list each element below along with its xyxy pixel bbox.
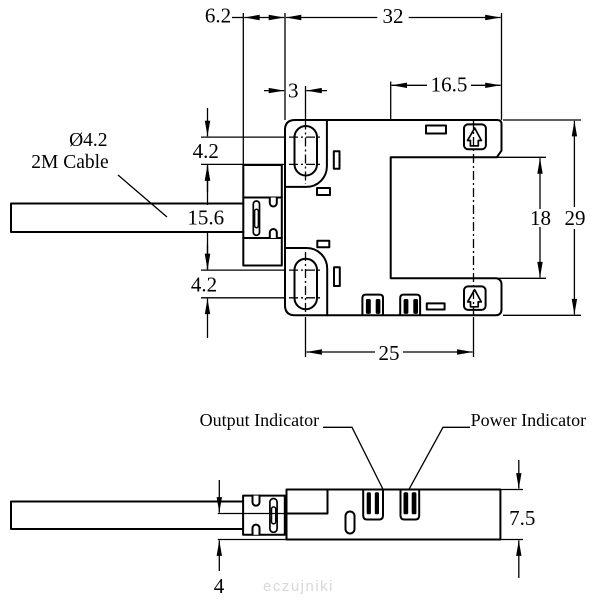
- mounting slot obround bottom: [295, 259, 318, 310]
- extension lines left dims: [201, 136, 285, 138]
- extension 7.5 top: [500, 489, 523, 491]
- svg-text:eczujniki: eczujniki: [263, 578, 334, 595]
- indicator window box top: [464, 124, 486, 149]
- cable boot side view: [243, 496, 285, 535]
- dim 18 line and arrows: [539, 158, 541, 209]
- extension line recess left: [390, 82, 392, 121]
- svg-text:4: 4: [214, 574, 225, 598]
- boot slot inner top view: [255, 209, 259, 227]
- svg-text:29: 29: [565, 206, 586, 230]
- fiber lock grille 1 top view: [362, 295, 383, 315]
- centerline indicator boxes vertical: [473, 120, 475, 315]
- extension line body right top: [501, 13, 503, 120]
- boot slot outer side view: [270, 499, 277, 533]
- svg-text:Ø4.2: Ø4.2: [69, 130, 107, 151]
- svg-text:6.2: 6.2: [205, 4, 231, 28]
- svg-text:3: 3: [288, 79, 299, 103]
- leader line cable label: [118, 175, 167, 217]
- dim 29 line and arrows: [573, 121, 575, 207]
- boot notch bottom (top view): [270, 229, 277, 238]
- extension line 25 left: [305, 317, 307, 357]
- dim 32 line and arrows: [286, 17, 378, 19]
- centerline obround2 lower horizontal: [289, 297, 322, 299]
- centerline obround2 upper horizontal: [289, 269, 322, 271]
- centerlines dash-dot: [289, 120, 474, 315]
- output indicator grille side: [363, 490, 383, 520]
- grille black bars top view: [366, 299, 418, 314]
- side body outline: [287, 490, 501, 540]
- leader power indicator: [409, 427, 470, 489]
- dim 7.5 arrows: [518, 460, 520, 489]
- side internal step: [287, 490, 328, 514]
- boot slot inner side view: [272, 507, 276, 524]
- dim 4.2 lower arrows: [207, 245, 209, 269]
- dim 4 step line extended: [218, 513, 287, 515]
- extension line 18 bottom: [497, 277, 546, 279]
- boot block edge lines top view: [243, 198, 281, 239]
- svg-text:4.2: 4.2: [191, 273, 217, 297]
- dim 3 outside arrows: [264, 90, 284, 92]
- small horizontal rect above bump2: [317, 241, 329, 248]
- arrow glyph in bottom box: [468, 290, 482, 307]
- extension line 6.2 left: [242, 13, 244, 165]
- power indicator grille side: [401, 490, 420, 520]
- arrow glyph in top box: [468, 128, 482, 146]
- dim 4 bottom extension: [218, 539, 287, 541]
- svg-text:Power Indicator: Power Indicator: [471, 410, 586, 430]
- boot slot outer top view: [253, 201, 259, 235]
- extension line body left top: [284, 13, 286, 120]
- dim 15.6 line and arrows: [207, 165, 209, 205]
- bump top-left raised pad: [285, 120, 327, 187]
- cable boot outer top view: [243, 165, 281, 266]
- extension line 25 right: [473, 317, 475, 357]
- svg-text:32: 32: [383, 4, 404, 28]
- dim 25 line and arrows: [306, 351, 375, 353]
- side slot stadium: [346, 512, 355, 534]
- boot notch top (side view): [253, 496, 260, 506]
- extension 7.5 bottom: [500, 539, 523, 541]
- centerline obround1 lower horizontal: [289, 163, 322, 165]
- centerline obround2 vertical: [305, 252, 307, 315]
- extension line 29 top: [503, 119, 581, 121]
- svg-text:7.5: 7.5: [509, 506, 535, 530]
- extension line obround1 center for dim 3: [305, 86, 307, 120]
- svg-text:2M Cable: 2M Cable: [31, 152, 108, 173]
- side view: [11, 490, 500, 540]
- small vertical rect upper-left: [334, 151, 340, 169]
- fiber lock grille 2 top view: [400, 295, 420, 315]
- centerline obround1 upper horizontal: [289, 136, 322, 138]
- dim 6.2 line and arrows: [232, 17, 243, 19]
- centerline obround1 vertical: [305, 121, 307, 185]
- small rect bottom strip: [427, 303, 445, 309]
- top view body outline: [285, 120, 502, 315]
- indicator window box bottom: [464, 286, 486, 310]
- cable outline side view: [11, 502, 243, 530]
- svg-text:18: 18: [530, 206, 551, 230]
- leader output indicator: [323, 427, 383, 489]
- small rect top strip: [426, 126, 446, 134]
- dim 4 arrows: [218, 480, 220, 513]
- svg-text:4.2: 4.2: [193, 139, 219, 163]
- svg-text:16.5: 16.5: [431, 73, 468, 97]
- bump bottom-left raised pad: [285, 248, 327, 315]
- dim 4.2 upper arrows: [207, 108, 209, 136]
- dim 16.5 line and arrows: [392, 84, 428, 86]
- small vertical rect lower-left: [334, 267, 340, 286]
- svg-text:15.6: 15.6: [187, 206, 224, 230]
- boot notch bottom (side view): [253, 525, 260, 535]
- extension line 18 top: [497, 156, 546, 158]
- boot notch top (top view): [270, 198, 277, 207]
- mounting slot obround top: [295, 126, 318, 176]
- grille black bars side view: [367, 492, 417, 514]
- svg-text:25: 25: [379, 341, 400, 365]
- cable outline top view: [11, 204, 243, 233]
- extension line 29 bottom: [503, 314, 581, 316]
- small horizontal rect below bump1: [317, 188, 330, 195]
- svg-text:Output Indicator: Output Indicator: [200, 410, 319, 430]
